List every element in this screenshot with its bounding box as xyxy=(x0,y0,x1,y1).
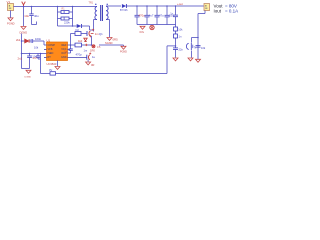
svg-text:1n: 1n xyxy=(179,35,182,39)
svg-text:PGND: PGND xyxy=(120,50,127,53)
node dot O xyxy=(29,53,31,55)
node dot E xyxy=(72,25,74,27)
wire opto branch xyxy=(192,38,199,58)
transformer TX1 primary winding xyxy=(95,7,97,20)
wire feedback chain xyxy=(167,25,176,74)
svg-text:COMP: COMP xyxy=(48,44,56,47)
node dot P xyxy=(40,53,42,55)
ground bypass xyxy=(86,62,91,65)
svg-text:10k: 10k xyxy=(34,45,39,49)
capacitor C15 bypass xyxy=(87,53,91,62)
wire snubber left xyxy=(57,7,59,27)
resistor R1 snubber xyxy=(58,8,73,14)
wire comp row xyxy=(22,41,47,45)
svg-text:Iout: Iout xyxy=(214,8,222,13)
wire primary bottom xyxy=(94,20,98,32)
resistor R7 divider upper xyxy=(196,46,206,50)
wire output bottom rail xyxy=(137,24,176,26)
svg-text:1k0: 1k0 xyxy=(78,39,83,43)
text Vout xyxy=(214,3,239,13)
node dot K xyxy=(197,37,199,39)
node dot J xyxy=(175,5,177,7)
capacitor C11 comp xyxy=(31,39,33,43)
ground timing xyxy=(25,70,32,78)
svg-text:UC3843: UC3843 xyxy=(47,62,57,66)
resistor R8 feedback xyxy=(174,27,184,32)
ground divider xyxy=(196,59,201,62)
wire connector return xyxy=(198,11,205,60)
svg-text:2k2: 2k2 xyxy=(16,38,21,42)
capacitor C4 output xyxy=(135,6,146,25)
capacitor C8 feedback top xyxy=(170,6,178,25)
wire drain xyxy=(91,36,93,45)
diode D2 clamp xyxy=(76,24,82,32)
capacitor C13 xyxy=(33,54,41,61)
phase dot secondary xyxy=(107,4,108,5)
svg-text:VFB: VFB xyxy=(48,48,53,51)
capacitor C12 timing xyxy=(18,54,38,69)
input source J1 xyxy=(7,0,14,11)
ground IC xyxy=(55,67,60,70)
svg-text:0R5: 0R5 xyxy=(113,37,119,41)
optocoupler U2 xyxy=(186,43,197,50)
svg-text:22n: 22n xyxy=(179,47,184,51)
diode D3 output xyxy=(120,4,128,12)
svg-text:0V: 0V xyxy=(49,68,52,72)
capacitor C10 feedback xyxy=(173,47,183,51)
node dot Q xyxy=(70,44,72,46)
power flag VIN xyxy=(22,2,26,7)
IC pin stubs xyxy=(44,50,87,58)
capacitor C6 output xyxy=(155,6,165,25)
svg-text:+out: +out xyxy=(177,2,183,6)
svg-text:10k: 10k xyxy=(201,46,206,50)
node dot B xyxy=(31,6,33,8)
wire IC ground stub xyxy=(57,61,59,67)
wire gate row xyxy=(71,34,87,46)
ground opto xyxy=(188,58,193,61)
svg-text:100n: 100n xyxy=(35,37,42,41)
svg-text:2n2: 2n2 xyxy=(18,57,23,61)
phase dot primary xyxy=(95,4,96,5)
diode D4 red xyxy=(25,39,29,43)
resistor R3 gate xyxy=(75,39,83,47)
capacitor C2 xyxy=(29,7,39,25)
svg-text:4u7: 4u7 xyxy=(149,14,154,18)
svg-text:GND: GND xyxy=(61,56,67,59)
current probe output xyxy=(150,25,154,29)
resistor R2 series xyxy=(75,32,81,36)
svg-text:TR1: TR1 xyxy=(89,1,94,4)
capacitor C9 feedback xyxy=(174,34,182,39)
controller U1 xyxy=(47,38,68,66)
svg-text:4n7: 4n7 xyxy=(33,56,38,60)
wire out row xyxy=(68,44,92,46)
svg-text:1u: 1u xyxy=(92,55,96,59)
ground feedback xyxy=(173,58,178,61)
probe bottom rail xyxy=(49,68,56,75)
ground source xyxy=(120,46,127,53)
svg-text:DGND: DGND xyxy=(25,77,32,79)
ground secondary xyxy=(105,38,113,46)
svg-text:= 0.1A: = 0.1A xyxy=(225,8,238,13)
wire secondary bottom xyxy=(106,20,110,38)
svg-text:0.5: 0.5 xyxy=(97,46,101,49)
node dot A xyxy=(23,6,25,8)
sense resistor red xyxy=(85,44,95,48)
svg-text:BYV26: BYV26 xyxy=(120,9,128,12)
wire bottom rail xyxy=(41,73,168,75)
ground input xyxy=(7,18,15,25)
node dot N xyxy=(21,53,23,55)
wire source row xyxy=(99,45,124,46)
node dot I xyxy=(166,5,168,7)
capacitor C14 vref xyxy=(64,45,73,53)
svg-text:10k: 10k xyxy=(178,28,183,32)
node dot F xyxy=(136,5,138,7)
wire clamp row xyxy=(58,26,94,30)
svg-text:47u: 47u xyxy=(159,14,164,18)
ground output xyxy=(140,26,146,34)
output connector J2 xyxy=(204,4,210,11)
svg-text:SGND: SGND xyxy=(105,41,113,45)
svg-text:0Vs: 0Vs xyxy=(140,30,145,34)
svg-text:1R0: 1R0 xyxy=(90,49,95,53)
wire snubber right xyxy=(72,7,74,27)
svg-text:PGND: PGND xyxy=(7,21,15,25)
node dot M xyxy=(21,40,23,42)
svg-text:RT: RT xyxy=(48,56,52,59)
node dot G xyxy=(146,5,148,7)
wire rt row xyxy=(22,53,47,55)
svg-text:220k: 220k xyxy=(64,20,70,24)
node dot C xyxy=(57,6,59,8)
svg-text:V1: V1 xyxy=(7,0,11,4)
node dot L xyxy=(175,45,177,47)
capacitor C7 output xyxy=(165,6,175,25)
wire left bus xyxy=(21,34,23,69)
svg-text:REF: REF xyxy=(62,44,67,47)
svg-text:40u: 40u xyxy=(34,14,39,18)
svg-text:470p: 470p xyxy=(76,52,83,56)
node dot D xyxy=(72,6,74,8)
sense element primary xyxy=(87,29,103,38)
node dot R xyxy=(91,44,93,46)
capacitor C5 output xyxy=(145,6,154,25)
wire secondary top xyxy=(106,5,121,7)
svg-text:10u: 10u xyxy=(24,14,29,18)
svg-text:ISEN: ISEN xyxy=(48,52,54,55)
wire source bottom xyxy=(10,11,12,18)
node dot H xyxy=(156,5,158,7)
svg-text:DGND: DGND xyxy=(20,31,28,35)
svg-text:Q1: Q1 xyxy=(99,32,103,36)
svg-text:0R: 0R xyxy=(91,63,94,67)
svg-text:U1: U1 xyxy=(47,38,51,42)
svg-text:470u: 470u xyxy=(139,14,146,18)
wire input rail xyxy=(14,6,98,8)
transformer secondary winding xyxy=(106,6,108,19)
svg-text:1m: 1m xyxy=(84,48,88,52)
ground bulk xyxy=(20,27,28,35)
diode D5 red small xyxy=(84,38,87,41)
capacitor C3 snubber xyxy=(58,17,73,24)
wire output rail xyxy=(126,5,204,7)
transformer core xyxy=(101,5,103,21)
wire bulk cap branch xyxy=(23,7,25,27)
wire fb down xyxy=(40,54,42,74)
